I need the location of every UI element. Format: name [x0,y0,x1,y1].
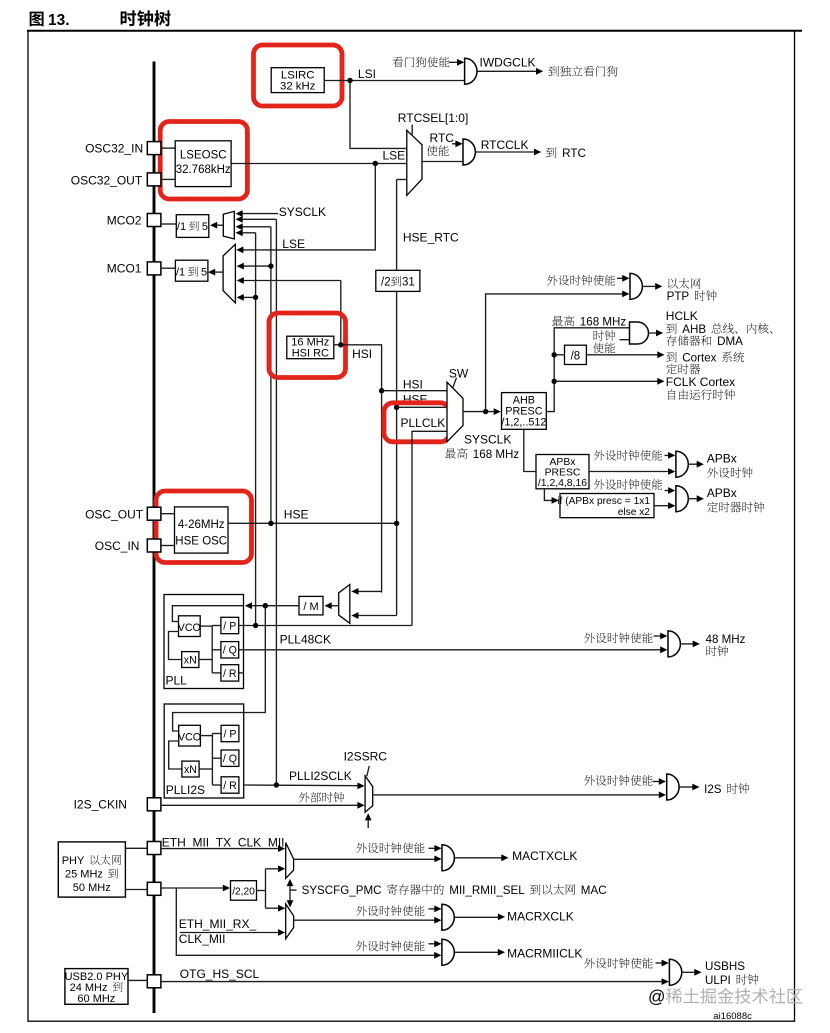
svg-text:APBx: APBx [707,486,737,500]
label RTCSEL[1:0] [398,111,468,125]
svg-text:LSE: LSE [282,237,305,251]
wire I2S enable [653,778,667,785]
wire trunk PLLI2S [275,219,277,785]
svg-text:RTCSEL[1:0]: RTCSEL[1:0] [398,111,468,125]
wire APBx1 out [689,461,704,468]
svg-text:HSE: HSE [175,536,199,548]
label OSC_IN [95,539,140,553]
wire RMII branch [176,888,441,959]
PLLI2S block [164,704,244,798]
wire OTG_HS_SCL [161,978,669,985]
label 最高168 hclk [552,316,626,329]
wire IWDGCLK out [477,68,543,75]
wire /8 out [586,351,664,358]
wire HSI out [334,345,382,593]
wire trunk HSI short [340,281,342,345]
junction dot HSI1 [338,342,343,347]
wire 外部时钟 [161,802,365,809]
wire 48M out [681,641,700,648]
svg-text:PRESC: PRESC [545,467,581,478]
label 外设时钟使能 macrx [356,905,424,916]
svg-text:Cortex: Cortex [682,351,716,364]
svg-text:OSC: OSC [202,536,227,548]
label OSC32_OUT [71,173,143,187]
svg-text:RTCCLK: RTCCLK [481,138,529,152]
label HSE_RTC [403,231,459,245]
wire MACTX enable [429,845,442,852]
svg-text:PLLI2S: PLLI2S [166,783,205,797]
svg-text:@: @ [648,987,665,1007]
pad MCO2 [147,214,161,227]
svg-text:R: R [229,668,237,680]
junction dot HSE2 [394,521,399,526]
svg-text:PHY: PHY [106,971,129,983]
wire PLL /P out PLLCLK [239,625,412,627]
PLL block [164,595,244,689]
label HSI sw [403,378,423,392]
svg-text:ETH_MII_TX_CLK_MII: ETH_MII_TX_CLK_MII [162,836,285,850]
svg-text:MHz: MHz [602,316,626,329]
wire RTC mux out [422,161,463,163]
wire PHY to pad2 [125,889,147,891]
wire PLLCLK to SW [412,431,447,625]
label 最高168 sw [445,448,519,461]
svg-text:SYSCFG_PMC: SYSCFG_PMC [302,884,382,897]
svg-text:MACRMIICLK: MACRMIICLK [507,946,582,960]
svg-text:MHz: MHz [495,448,519,461]
label MACRXCLK [507,909,574,923]
wire APBx1 enable [665,452,676,459]
svg-text:/2: /2 [381,277,391,289]
wire if out [654,502,675,509]
wire /M mux out [325,602,339,609]
wire PTP enable [617,275,629,282]
svg-text:OSC_IN: OSC_IN [95,539,140,553]
wire APBx2 out [689,495,704,502]
wire MCO1 in2 HSE [237,263,274,270]
junction dot AHB1 [552,352,557,357]
svg-text:PLL48CK: PLL48CK [280,633,331,647]
wire pad to LSEOSC 1 [161,147,175,149]
svg-text:/: / [223,668,226,680]
wire pad MCO1 to div [161,267,176,269]
wire USB out [682,969,701,976]
label OSC_OUT [85,507,144,521]
label I2SSRC [344,750,388,764]
and-gate I2S [667,774,679,800]
svg-text:/: / [223,645,226,657]
label LSI [358,67,376,81]
svg-text:OSC32_IN: OSC32_IN [85,142,143,156]
mux I2SSRC [365,776,373,813]
junction dot PLLI2SCLK [274,782,279,787]
pad ETH_RX [147,882,161,895]
svg-text:/1,2,4,8,16: /1,2,4,8,16 [538,478,587,489]
oscillator LSEOSC box [175,141,231,187]
svg-text:168: 168 [473,448,492,461]
mux ETH RX [286,904,294,939]
wire ETH RX clk2 [180,929,285,936]
label 外设时钟使能 apb1 [594,450,662,461]
label 外部时钟 [299,792,344,803]
svg-text:kHz: kHz [296,81,316,93]
pad I2S_CKIN [147,798,161,811]
label RTCCLK [481,138,529,152]
svg-text:P: P [229,620,236,632]
watermark [648,987,802,1007]
svg-text:LSE: LSE [383,148,406,162]
pad OSC32_IN [147,142,161,155]
label 外设时钟使能 mactx [356,842,424,853]
svg-text:SW: SW [449,366,469,380]
USB PHY box [65,969,129,1005]
svg-text:MCO1: MCO1 [107,261,142,275]
mux MCO1 [223,244,235,303]
svg-text:RTC: RTC [562,147,586,160]
junction dot /M [263,603,268,608]
label SYSCFG_PMC [302,884,607,897]
wire MACRX out [455,914,506,921]
wire AHB out up [546,328,630,412]
label MACTXCLK [512,849,577,863]
svg-text:x2: x2 [639,507,650,518]
wire LSE [231,163,407,165]
svg-text:M: M [310,601,319,613]
svg-text:HCLK: HCLK [666,309,698,323]
svg-text:MHz: MHz [88,882,111,894]
label RTC 使能 [427,131,454,156]
label SYSCLK [279,205,326,219]
label PLLCLK [401,416,446,430]
svg-text:168: 168 [580,316,599,329]
wire MCO1 in4 PLL [237,294,259,301]
svg-text:13.: 13. [48,12,70,29]
wire HCLK out [649,330,664,337]
svg-text:ETH_MII_RX_: ETH_MII_RX_ [179,917,257,931]
svg-text:/: / [223,753,226,765]
label HCLK block [666,309,772,400]
svg-text:MACTXCLK: MACTXCLK [512,849,577,863]
wire FCLK [554,378,664,385]
wire HSE_RTC to RTC mux [397,179,407,181]
wire HSE [228,522,397,524]
oscillator HSE box [175,507,229,553]
svg-text:/: / [223,620,226,632]
red highlight PLLCLK [384,403,450,442]
svg-text:SYSCLK: SYSCLK [464,432,511,446]
wire PHY to pad1 [125,847,147,849]
label 外设时钟使能 macrmii [356,941,424,952]
red highlight LSEOSC [160,122,247,200]
wire pad OSC_OUT [161,513,175,515]
wire pad MCO2 to div [161,223,176,225]
prescaler APBx box [536,455,589,489]
svg-text:32.768kHz: 32.768kHz [176,164,231,176]
svg-text:31: 31 [402,277,415,289]
divider /2到31 box [376,270,420,291]
wire 48M enable [654,633,668,640]
prescaler AHB box [501,393,546,430]
mux MCO2 [223,211,234,239]
label OSC32_IN [85,142,143,156]
wire PLL /Q out PLL48CK [239,646,668,653]
wire MACTX out [455,854,509,861]
svg-text:PHY: PHY [62,855,85,867]
label 外设时钟使能 48m [584,632,652,643]
svg-text:OTG_HS_SCL: OTG_HS_SCL [180,967,260,981]
svg-text:PLL: PLL [166,674,188,688]
junction dot LSI [347,78,352,83]
svg-text:HSE_RTC: HSE_RTC [403,231,459,245]
label 外设时钟使能 usb [584,958,652,969]
and-gate MACRX [442,904,454,930]
label HSE sw [403,392,428,406]
wire USB enable [656,960,669,967]
svg-text:/1,2,..512: /1,2,..512 [501,417,546,429]
wire MCO2 in3 HSE [236,223,271,230]
label OTG_HS_SCL [180,967,260,981]
svg-text:I2S_CKIN: I2S_CKIN [74,797,127,811]
wire pad OSC_IN [161,545,175,547]
svg-text:HSE: HSE [284,508,309,522]
wire MACRMII enable [429,940,442,947]
pad OTG [147,975,161,988]
svg-text:MII_RMII_SEL: MII_RMII_SEL [449,884,525,897]
wire RX mux out [294,917,442,924]
pad OSC32_OUT [147,173,161,186]
svg-text:RC: RC [313,347,329,359]
label 48 MHz 时钟 [706,633,746,656]
svg-text:MHz: MHz [93,993,116,1005]
wire PLL /R stub [239,672,244,674]
label LSE MCO1 [282,237,305,251]
svg-text:HSI: HSI [403,378,423,392]
junction dot AHB2 [552,379,557,384]
and-gate MACTX [442,845,454,871]
svg-text:PLLI2SCLK: PLLI2SCLK [289,769,352,783]
svg-text:/: / [224,728,227,740]
svg-text:FCLK: FCLK [666,375,697,389]
label 外设时钟使能 i2s [584,775,652,786]
figure title [30,10,171,29]
wire ETH TX clk [161,845,285,852]
oscillator LSIRC 32 kHz box [271,68,324,93]
svg-text:1x1: 1x1 [634,496,651,507]
svg-text:P: P [229,728,236,740]
pad MCO1 [147,262,161,275]
wire RTCSEL select [411,125,413,135]
wire /2,20 split [257,865,286,911]
wire SW out [463,408,501,415]
svg-text:OSC32_OUT: OSC32_OUT [71,173,143,187]
wire I2SSRC select [367,766,369,776]
divider /M box [299,596,323,615]
wire HSI to SW [382,390,447,392]
wire HSI to /M mux [351,588,381,595]
svg-text:Q: Q [229,645,237,657]
pad OSC_OUT [147,507,161,520]
svg-text:MACRXCLK: MACRXCLK [507,909,574,923]
label APBx 外设时钟 [707,451,753,478]
and-gate RTC [463,139,475,165]
wire trunk PLL [255,233,257,626]
wire MCO1 in3 HSI [237,277,341,284]
mux ETH TX [286,843,294,879]
wire APBx down to if [544,489,558,504]
label APBx 定时器时钟 [707,486,765,513]
wire HSE_RTC trunk [396,180,398,616]
svg-text:Q: Q [229,753,237,765]
svg-text:/1: /1 [177,221,186,233]
svg-text:if: if [557,496,562,507]
svg-text:(APBx: (APBx [565,496,594,507]
junction dot LSE [373,161,378,166]
junction dot HSE1 [268,521,273,526]
svg-text:HSI: HSI [292,347,310,359]
svg-text:RTC: RTC [430,131,455,145]
svg-text:5: 5 [201,267,207,279]
label USBHS ULPI 时钟 [705,960,758,987]
svg-text:4-26MHz: 4-26MHz [178,519,225,531]
svg-text:48: 48 [706,633,719,646]
svg-text:=: = [625,496,631,507]
svg-text:5: 5 [202,221,208,233]
svg-text:I2SSRC: I2SSRC [344,750,388,764]
wire MCO2 in4 PLL [236,229,256,236]
mux PLL source [339,585,350,624]
wire /8 in [554,354,564,356]
svg-text:APBx: APBx [707,451,737,465]
label IWDGCLK [480,56,536,70]
pad ETH_TX [147,842,161,855]
label ETH_MII_TX_CLK_MII [162,836,285,850]
label ETH_MII_RX_ [179,917,257,931]
svg-text:MHz: MHz [722,633,746,646]
svg-text:AHB: AHB [682,323,706,336]
label 外设时钟使能 ptp [547,275,615,286]
chip boundary line [153,62,156,1014]
label 以太网 PTP 时钟 [667,278,717,303]
oscillator HSI box [287,336,334,359]
wire LSI [324,80,464,82]
svg-text:DMA: DMA [717,335,743,348]
svg-text:xN: xN [184,764,197,776]
wire MACRX enable [429,906,442,913]
label 时钟使能 hclk [593,330,615,353]
svg-text:USBHS: USBHS [705,960,745,973]
label HSE [284,508,309,522]
svg-text:else: else [618,507,637,518]
svg-text:APBx: APBx [550,457,577,468]
and-gate 48MHz [668,631,680,657]
wire PTP out [643,283,663,290]
label I2S 时钟 [704,783,749,796]
label 到独立看门狗 [548,66,617,77]
svg-text:/8: /8 [571,351,581,363]
wire trunk HSE [270,227,272,524]
label 外设时钟使能 apb2 [594,479,662,490]
divider /8 box [565,345,587,364]
wire LSI to RTC mux [350,81,407,149]
svg-text:OSC_OUT: OSC_OUT [85,507,144,521]
wire RX clk to /2,20 [161,885,230,892]
svg-text:xN: xN [184,655,197,667]
wire SW select [452,378,457,391]
junction dot HSE sw [394,405,399,410]
junction dot HSI2 [379,388,384,393]
svg-text:IWDGCLK: IWDGCLK [480,56,536,70]
svg-text:PLLCLK: PLLCLK [401,416,446,430]
wire MACRMII out [455,949,505,956]
svg-text:VCO: VCO [178,732,201,744]
wire PLLI2S /R out [244,783,365,790]
wire I2S select up [365,813,372,828]
label PLLI2SCLK [289,769,352,783]
and-gate MACRMII [442,939,454,965]
and-gate IWDG [465,58,477,84]
wire HCLK enable [620,339,630,341]
svg-text:50: 50 [73,882,85,894]
svg-text:LSEOSC: LSEOSC [180,150,227,162]
label MCO1 [107,261,142,275]
and-gate APBx peripheral [676,451,688,477]
label MCO2 [107,213,142,227]
label PLL48CK [280,633,331,647]
wire HSE_RTC to /M mux [351,612,396,619]
divider MCO2 /1到5 box [176,215,209,238]
wire MCO1 mux out [208,269,223,276]
label LSE at mux [383,148,406,162]
wire SYSCLK stub MCO2 [236,210,279,217]
wire USB PHY to pad [128,979,147,981]
PHY box [58,842,125,897]
wire /M to PLL [245,602,299,609]
svg-text:/: / [223,780,226,792]
wire /M to PLLI2S [244,606,266,713]
label SW [449,366,469,380]
wire MCO2 mux out [210,222,223,229]
svg-text:HSI: HSI [352,347,372,361]
label MACRMIICLK [507,946,582,960]
mux RTCSEL [407,130,422,195]
label CLK_MII [179,932,226,946]
svg-text:MCO2: MCO2 [107,213,142,227]
wire pad to LSEOSC 2 [161,178,175,180]
svg-text:PTP: PTP [667,290,690,303]
svg-text:VCO: VCO [178,622,201,634]
condition box if APBx [557,494,654,518]
svg-text:/2,20: /2,20 [232,886,255,897]
label 看门狗使能 [392,57,449,68]
svg-text:ai16088c: ai16088c [713,1011,752,1022]
red highlight HSI [269,313,346,378]
svg-text:60: 60 [77,993,89,1005]
wire IWDG enable [449,59,464,66]
and-gate APBx timer [676,486,688,512]
and-gate PTP [630,273,642,299]
divider /2,20 box [231,881,257,901]
label HSI [352,347,372,361]
label I2S_CKIN [74,797,127,811]
red highlight HSEOSC [156,491,252,563]
wire I2S mux out [373,792,666,799]
label ai16088c [713,1011,752,1022]
and-gate HCLK [630,322,649,344]
wire MII_RMII select [287,879,297,908]
wire APBx2 enable [665,487,676,494]
label 到 RTC [546,147,586,160]
svg-text:CLK_MII: CLK_MII [179,932,226,946]
